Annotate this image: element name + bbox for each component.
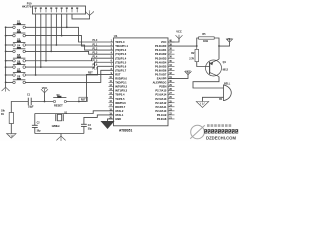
- svg-text:30p: 30p: [88, 129, 93, 131]
- power VCC (U1 pin40): [168, 41, 179, 42]
- svg-text:T0/P3.4: T0/P3.4: [115, 93, 125, 97]
- node junction: [35, 74, 37, 76]
- U1 right pin 39 stub: [168, 45, 175, 47]
- node bus junction: [5, 51, 7, 53]
- U1 right pin 36 stub: [168, 57, 175, 59]
- resistor R2: [196, 46, 198, 49]
- U1 right pin 26 stub: [168, 98, 175, 100]
- transistor Q1 9012: [206, 60, 222, 76]
- wire header pin3 drop: [45, 14, 47, 61]
- wire button to U1: [25, 45, 113, 50]
- svg-text:INT1/P3.3: INT1/P3.3: [115, 89, 127, 93]
- U1 right pin 21 stub: [168, 118, 175, 120]
- svg-text:P0.4/AD4: P0.4/AD4: [155, 60, 167, 64]
- U1 right pin 31 stub: [168, 77, 175, 79]
- U1 right pin 40 stub: [168, 41, 175, 43]
- U1 right pin 38 stub: [168, 49, 175, 51]
- capacitor C3: [81, 123, 87, 125]
- svg-text:P1.6: P1.6: [93, 65, 98, 67]
- U1 left pin 12 stub: [109, 86, 114, 88]
- U1 right pin 28 stub: [168, 90, 175, 92]
- svg-text:P2.2/A10: P2.2/A10: [155, 109, 167, 113]
- node bus junction: [5, 35, 7, 37]
- svg-text:WR/P3.6: WR/P3.6: [115, 101, 126, 105]
- crystal X1: [55, 114, 57, 121]
- wire header pin2 drop: [40, 14, 42, 67]
- wire header pin5 drop: [55, 14, 57, 45]
- node RST box: [79, 97, 88, 101]
- svg-text:(T3)/P1.5: (T3)/P1.5: [115, 60, 127, 64]
- U1 left pin 10 stub: [109, 77, 114, 79]
- capacitor C2: [32, 124, 38, 126]
- svg-text:VCC: VCC: [227, 38, 232, 41]
- svg-text:P2.3/A11: P2.3/A11: [156, 105, 167, 109]
- svg-text:P1.2: P1.2: [93, 48, 98, 50]
- node bus junction: [5, 60, 7, 62]
- node junction: [45, 60, 47, 62]
- node bus junction: [5, 82, 7, 84]
- svg-text:PSEN: PSEN: [159, 85, 166, 89]
- svg-text:VCC: VCC: [42, 86, 48, 90]
- svg-text:P0.6/AD6: P0.6/AD6: [155, 68, 167, 72]
- power VCC (buzzer): [219, 44, 230, 46]
- node junction: [66, 26, 68, 28]
- svg-text:P0.3/AD3: P0.3/AD3: [155, 56, 167, 60]
- svg-text:P0.2/AD2: P0.2/AD2: [155, 52, 167, 56]
- wire header pin6 drop: [61, 14, 63, 36]
- wire XTAL1 net: [84, 115, 114, 124]
- node bus junction: [5, 74, 7, 76]
- U1 left pin 14 stub: [109, 94, 114, 96]
- wire button left lead: [6, 44, 13, 46]
- watermark text row2: [204, 129, 207, 133]
- svg-text:P2.4/A12: P2.4/A12: [155, 101, 167, 105]
- wire button to U1: [25, 51, 113, 54]
- svg-text:P2.6/A14: P2.6/A14: [155, 93, 167, 97]
- svg-text:RESET: RESET: [54, 104, 63, 108]
- svg-text:BELL: BELL: [224, 82, 231, 85]
- wire button to U1: [25, 70, 113, 82]
- wire XTAL2 net: [35, 111, 114, 114]
- resistor R1: [9, 113, 13, 124]
- wire R1 to ground: [10, 124, 12, 134]
- svg-text:T2/P1.0: T2/P1.0: [115, 40, 125, 44]
- wire key common bus: [5, 27, 7, 85]
- U1 left pin 15 stub: [109, 98, 114, 100]
- svg-text:ALE/PROG: ALE/PROG: [153, 81, 167, 85]
- svg-text:10µF: 10µF: [28, 106, 34, 109]
- wire button left lead: [6, 35, 13, 37]
- svg-text:INT0/P3.2: INT0/P3.2: [115, 85, 127, 89]
- svg-text:P1.5: P1.5: [93, 60, 98, 62]
- wire button to U1: [25, 27, 113, 42]
- U1 right pin 24 stub: [168, 106, 175, 108]
- watermark text row1: [207, 124, 210, 127]
- wire header pin8 to ground: [72, 14, 90, 19]
- capacitor C1: [27, 98, 29, 106]
- svg-text:P0.1/AD1: P0.1/AD1: [155, 48, 167, 52]
- wire button to U1: [25, 62, 113, 67]
- U1 left pin 11 stub: [109, 82, 114, 84]
- svg-text:P1.3: P1.3: [93, 52, 98, 54]
- wire R5 right lead: [214, 38, 219, 46]
- svg-text:RD/P3.7: RD/P3.7: [115, 105, 126, 109]
- resistor R5: [199, 37, 215, 39]
- svg-text:T2EX/P1.1: T2EX/P1.1: [115, 44, 128, 48]
- U1 right pin 30 stub: [168, 82, 175, 84]
- ground (top, near connector): [89, 15, 91, 17]
- svg-text:P1.4: P1.4: [93, 55, 98, 58]
- svg-text:XTAL2: XTAL2: [115, 109, 124, 113]
- wire button to U1: [25, 36, 113, 46]
- svg-text:EA/VPP: EA/VPP: [157, 77, 167, 81]
- wire button to U1: [25, 66, 113, 75]
- node junction: [40, 66, 42, 68]
- wire C1 to reset button: [31, 101, 53, 103]
- svg-text:DZDECHI.COM: DZDECHI.COM: [206, 135, 236, 140]
- wire button to U1: [25, 58, 113, 61]
- svg-text:P1.7: P1.7: [93, 69, 98, 71]
- ground (buzzer): [196, 102, 209, 108]
- wire header pin1 drop: [35, 14, 37, 75]
- wire R2 to Q1 base: [197, 62, 210, 67]
- power VCC (reset): [44, 95, 46, 102]
- wire header pin4 drop: [50, 14, 52, 51]
- node junction: [56, 44, 58, 46]
- svg-text:2.7K: 2.7K: [189, 57, 194, 60]
- svg-text:12MHz: 12MHz: [52, 124, 61, 128]
- U1 right pin 32 stub: [168, 73, 175, 75]
- svg-text:(T2)/P1.4: (T2)/P1.4: [115, 56, 127, 60]
- wire U1 GND pin: [108, 119, 114, 121]
- U1 left pin 17 stub: [109, 106, 114, 108]
- svg-text:P0.5/AD5: P0.5/AD5: [155, 64, 167, 68]
- op-chip U1 AT89S51: [114, 38, 169, 126]
- U1 right pin 33 stub: [168, 69, 175, 71]
- node junction: [50, 51, 52, 53]
- svg-text:(T5)/P1.7: (T5)/P1.7: [115, 68, 127, 72]
- svg-text:P2.0/A8: P2.0/A8: [157, 117, 167, 121]
- svg-text:RXD/P3.0: RXD/P3.0: [115, 77, 127, 81]
- node A junction: [196, 45, 198, 47]
- svg-text:XTAL1: XTAL1: [115, 113, 124, 117]
- wire C3 to bottom rail: [83, 126, 85, 133]
- U1 right pin 37 stub: [168, 53, 175, 55]
- node bus junction: [5, 26, 7, 28]
- svg-text:VCC: VCC: [176, 30, 182, 34]
- ground (U1 GND, filled): [101, 121, 115, 129]
- svg-text:(T0)/P1.2: (T0)/P1.2: [115, 48, 127, 52]
- svg-text:P1.0: P1.0: [93, 40, 98, 42]
- U1 left pin 16 stub: [109, 102, 114, 104]
- watermark logo circle: [190, 125, 205, 139]
- node junction: [61, 35, 63, 37]
- wire button left lead: [6, 50, 13, 52]
- buzzer B1 BELL: [223, 85, 225, 102]
- ground (crystal): [60, 134, 62, 137]
- wire button left lead: [6, 66, 13, 68]
- wire U1 pin39 to node A: [168, 45, 197, 47]
- wire reset rail: [11, 102, 28, 113]
- svg-text:RST: RST: [115, 72, 121, 76]
- svg-text:TXD/P3.1: TXD/P3.1: [115, 81, 127, 85]
- wire reset button to RST: [66, 101, 86, 103]
- svg-text:1KΩ: 1KΩ: [203, 40, 208, 43]
- svg-text:P0.7/AD7: P0.7/AD7: [155, 72, 167, 76]
- svg-text:GND: GND: [115, 117, 121, 121]
- wire button left lead: [6, 81, 13, 83]
- svg-text:(T4)/P1.6: (T4)/P1.6: [115, 64, 127, 68]
- wire RST to U1 pin9: [87, 74, 114, 101]
- svg-text:P2.5/A13: P2.5/A13: [155, 97, 167, 101]
- svg-text:P0.0/AD0: P0.0/AD0: [155, 44, 167, 48]
- wire R5 left lead: [197, 38, 199, 46]
- svg-text:T1/P3.5: T1/P3.5: [115, 97, 125, 101]
- wire button left lead: [6, 60, 13, 62]
- U1 right pin 22 stub: [168, 114, 175, 116]
- wire header pin7 drop: [66, 14, 68, 27]
- power VCC (EA pin31): [168, 77, 188, 78]
- svg-text:AT89S51: AT89S51: [119, 128, 132, 132]
- svg-text:RST: RST: [81, 100, 86, 102]
- svg-text:9012: 9012: [223, 69, 229, 72]
- svg-text:P2.1/A9: P2.1/A9: [157, 113, 167, 117]
- node bus junction: [5, 44, 7, 46]
- U1 right pin 25 stub: [168, 102, 175, 104]
- connector P10 header: [33, 6, 86, 14]
- U1 right pin 29 stub: [168, 86, 175, 88]
- U1 left pin 13 stub: [109, 90, 114, 92]
- wire button left lead: [6, 26, 13, 28]
- U1 right pin 27 stub: [168, 94, 175, 96]
- wire C2 to bottom rail: [34, 128, 36, 134]
- svg-text:VCC: VCC: [185, 70, 191, 74]
- ground (R1): [7, 134, 16, 139]
- svg-text:P2.7/A15: P2.7/A15: [155, 89, 167, 93]
- svg-text:U1: U1: [114, 34, 118, 38]
- U1 right pin 34 stub: [168, 65, 175, 67]
- wire crystal bottom rail: [35, 133, 84, 135]
- svg-text:VCC: VCC: [161, 40, 167, 44]
- wire VCC to Q1 emitter: [218, 46, 220, 59]
- ground (key bus): [5, 85, 7, 87]
- node bus junction: [5, 66, 7, 68]
- U1 right pin 23 stub: [168, 110, 175, 112]
- wire button left lead: [6, 74, 13, 76]
- svg-text:30p: 30p: [37, 130, 42, 132]
- U1 right pin 35 stub: [168, 61, 175, 63]
- svg-text:P1.1: P1.1: [93, 44, 98, 46]
- svg-text:(T1)/P1.3: (T1)/P1.3: [115, 52, 127, 56]
- wire Q1 collector to buzzer: [193, 77, 224, 88]
- node VCC-emitter junction: [218, 45, 220, 47]
- wire buzzer to ground: [203, 97, 224, 101]
- wire left leg down to C2: [34, 114, 36, 126]
- svg-text:HK177B: HK177B: [22, 6, 32, 9]
